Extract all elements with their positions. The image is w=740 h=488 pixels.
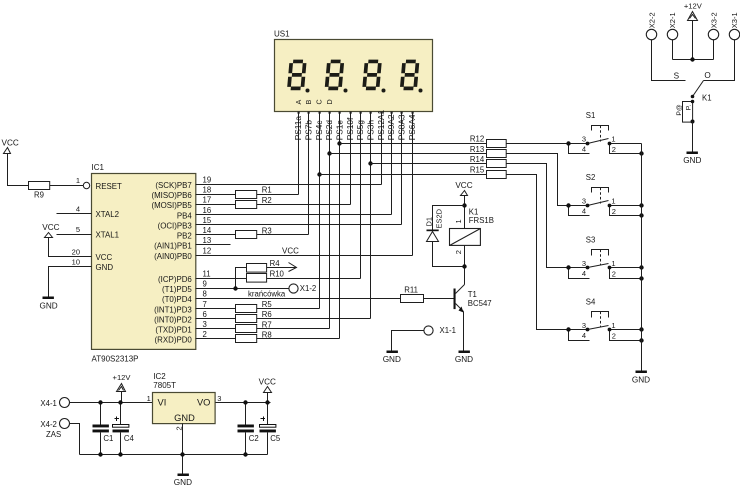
svg-text:GND: GND [632,376,650,385]
junction S3 to ground bus [639,276,643,280]
svg-text:X1-1: X1-1 [440,326,456,335]
display decimal point 2 [344,89,348,93]
svg-text:ES2D: ES2D [435,208,444,228]
display digit 1 [289,61,305,88]
switch S3 [566,236,641,279]
svg-text:GND: GND [174,478,192,487]
resistor R10 [247,274,267,283]
junction pole bottom [691,120,695,124]
connector X2-1 [667,29,677,39]
svg-text:S2: S2 [586,173,596,182]
svg-text:GND: GND [455,355,473,364]
svg-text:4: 4 [76,205,80,214]
svg-text:(ICP)PD6: (ICP)PD6 [158,275,192,284]
svg-text:2: 2 [612,332,616,341]
svg-text:B: B [304,100,313,105]
wire VCC to pin 20 [49,238,92,257]
svg-text:AT90S2313P: AT90S2313P [92,355,139,364]
svg-text:1: 1 [611,135,615,144]
wire keypad row to R12 [340,143,487,145]
svg-text:R3: R3 [262,226,272,235]
svg-text:IC2: IC2 [153,372,166,381]
svg-text:R2: R2 [262,196,272,205]
resistor R11 [401,295,424,303]
net PS11a column wire [298,112,300,195]
capacitor C4 (polarized) [113,403,135,455]
capacitor C1 [93,403,114,455]
net PS10f column wire [350,112,352,205]
svg-text:VCC: VCC [259,377,276,386]
wire pin 18 to R1 [196,194,236,196]
relay K1 FRS1B coil [450,208,494,255]
display digit 2 [327,61,343,88]
svg-text:5: 5 [76,225,80,234]
resistor R13 [487,150,507,158]
svg-text:K1: K1 [469,208,479,217]
svg-text:3: 3 [582,197,586,206]
resistor R4 (pull-up) [247,264,267,273]
wire pin 8 to R11 [196,298,401,300]
svg-text:20: 20 [72,247,80,256]
svg-text:17: 17 [203,196,212,205]
svg-text:1: 1 [611,197,615,206]
IC1 right pin numbers [203,175,212,339]
svg-text:krańcówka: krańcówka [248,290,286,299]
svg-text:+12V: +12V [113,373,132,382]
svg-text:(SCK)PB7: (SCK)PB7 [155,181,191,190]
svg-text:3: 3 [203,320,207,329]
junction +12V feed [690,57,694,61]
junction C4 top [118,400,122,404]
net PS8A3 column wire [401,112,403,225]
svg-text:2: 2 [612,270,616,279]
wire R12 to S1 [507,143,588,145]
svg-text:1: 1 [611,259,615,268]
wire +12V to X2-1 and X3-2 [673,21,714,60]
net PS9A2 column wire [391,112,393,215]
junction VCC / D1 / relay [462,203,466,207]
wire VCC to relay pin 1 [464,196,466,229]
svg-text:4: 4 [582,269,586,278]
svg-text:VCC: VCC [2,139,19,148]
display decimal point 3 [382,89,386,93]
wire IC2 VO rail [216,402,271,404]
power flag VCC (IC1 pin 20) [45,233,53,238]
svg-text:PS5g: PS5g [355,120,365,141]
svg-text:FRS1B: FRS1B [469,216,494,225]
wire pin 2 to R8 [196,338,236,340]
resistor R8 [236,335,257,343]
svg-text:3: 3 [582,321,586,330]
svg-text:XTAL2: XTAL2 [96,210,120,219]
net PS6A4 column wire [412,112,414,256]
connector X1-2 [289,284,298,293]
svg-text:P.: P. [686,105,693,111]
net PS4c column wire [319,112,321,309]
svg-text:X3-1: X3-1 [730,12,739,28]
svg-text:15: 15 [203,216,212,225]
wire R11 to T1 base [424,298,454,300]
svg-text:BC547: BC547 [468,299,492,308]
svg-text:T1: T1 [468,290,477,299]
net PS7b column wire [308,112,310,235]
svg-text:R10: R10 [270,270,285,279]
svg-text:ZAS: ZAS [46,430,61,439]
ground (X1-1) [387,351,398,354]
svg-text:(INT1)PD3: (INT1)PD3 [154,305,192,314]
wire IC2 GND pin to ground [182,424,184,474]
wire pin 10 to ground [49,267,92,297]
svg-text:X2-1: X2-1 [668,12,677,28]
svg-text:K1: K1 [702,93,712,102]
svg-text:X1-2: X1-2 [300,284,316,293]
svg-text:3: 3 [582,259,586,268]
wire R1 to PS11a [257,194,299,196]
wire X4-1 to IC2 VI [70,402,153,404]
diode D1 ES2D [425,208,444,241]
net PS12A1 column wire [381,112,383,185]
resistor R3 [236,231,257,239]
svg-text:C: C [315,99,324,104]
wire pin 16 to PS9A2 [196,214,392,216]
svg-text:R6: R6 [262,310,272,319]
junction S1 to ground bus [639,151,643,155]
switch S2 [566,173,641,216]
svg-text:(AIN1)PB1: (AIN1)PB1 [154,242,192,251]
svg-text:14: 14 [203,226,212,235]
junction C4 bottom [118,452,122,456]
wire relay pin 2 to T1 collector [464,246,466,285]
wire R7 to PS2d [257,328,330,330]
svg-text:R13: R13 [470,145,484,154]
svg-text:R1: R1 [262,186,272,195]
svg-text:R11: R11 [404,285,418,294]
resistor R12 [487,140,507,148]
IC1 left pin numbers and stubs [57,205,92,267]
resistor R9 [29,182,50,190]
junction PS4c / keypad row 4 [317,172,321,176]
svg-text:1: 1 [76,176,80,185]
svg-text:PS10f: PS10f [345,117,355,140]
svg-text:16: 16 [203,206,212,215]
svg-text:4: 4 [582,331,586,340]
wire relay top to D1 cathode [433,206,465,230]
svg-text:IC1: IC1 [92,163,105,172]
resistor R6 [236,315,257,323]
svg-text:11: 11 [203,269,211,278]
junction IC2 GND / bus [180,452,184,456]
svg-text:(RXD)PD0: (RXD)PD0 [155,336,193,345]
svg-text:VI: VI [158,398,167,408]
wire VCC to R9 [8,154,29,186]
svg-text:VCC: VCC [96,253,113,262]
svg-text:O: O [704,71,710,80]
wire R2 to PS10f [257,204,351,206]
wire R9 to IC1 RESET [50,185,84,187]
wire R14 to switch [507,164,588,268]
svg-text:1: 1 [611,321,615,330]
wire X2-2 to S contact [652,40,686,81]
svg-text:(AIN0)PB0: (AIN0)PB0 [154,252,192,261]
junction pole top [691,100,695,104]
svg-text:C4: C4 [124,434,135,443]
svg-text:GND: GND [96,263,114,272]
svg-text:GND: GND [683,156,701,165]
svg-text:S3: S3 [586,236,596,245]
wire pin 3 to R7 [196,328,236,330]
capacitor C2 [238,403,259,455]
svg-text:9: 9 [203,280,207,289]
junction C5 top [265,400,269,404]
connector X3-2 [708,29,718,39]
wire pin 14 to R3 [196,234,236,236]
svg-text:3: 3 [217,394,221,403]
svg-text:P@: P@ [676,104,683,116]
power flag VCC (reset pull-up) [4,148,11,154]
arrow to VCC [289,263,297,272]
net PS5g column wire [360,112,362,279]
svg-text:R9: R9 [34,191,44,200]
junction C1 bottom [98,452,102,456]
svg-text:7: 7 [203,300,207,309]
wire R5 to PS4c [257,308,320,310]
svg-text:R14: R14 [470,155,485,164]
wire keypad row to R15 [320,174,487,176]
wire X1-1 to ground [392,331,424,351]
connector X1-1 [424,326,433,335]
connector X4-2 [60,419,70,429]
net PS2d column wire [329,112,331,329]
svg-text:(MOSI)PB5: (MOSI)PB5 [151,201,192,210]
svg-text:R7: R7 [262,320,272,329]
wire +12V to rail [121,392,123,403]
switch S1 [566,111,641,154]
svg-text:PS6A4: PS6A4 [407,114,417,140]
svg-text:(T0)PD4: (T0)PD4 [162,295,192,304]
svg-text:7805T: 7805T [153,381,176,390]
svg-text:PS4c: PS4c [314,120,324,140]
wire T1 emitter to ground [463,312,465,351]
display US1 4-digit 7-segment [274,30,433,112]
svg-text:S4: S4 [586,298,596,307]
svg-text:GND: GND [39,302,57,311]
svg-text:12: 12 [203,246,212,255]
svg-text:X4-2: X4-2 [40,420,56,429]
svg-text:1: 1 [147,394,151,403]
wire R3 to PS7b [257,234,309,236]
svg-text:VCC: VCC [42,223,59,232]
wire R6 to PS3h [257,318,371,320]
resistor R7 [236,325,257,333]
wire R4 to VCC arrow [267,267,296,269]
svg-text:3: 3 [582,135,586,144]
svg-text:4: 4 [582,145,586,154]
svg-text:C5: C5 [270,434,281,443]
supply ground bus [80,454,268,456]
IC U IC1 AT90S2313P [92,163,196,364]
wire R4 left to pin 9 junction [236,268,247,289]
connector X4-1 [60,398,70,408]
wire pin 9 to X1-2 [196,288,289,290]
power flag +12V (supply) [117,384,126,392]
wire pin 6 to R6 [196,318,236,320]
svg-text:D1: D1 [425,217,434,227]
connector X3-1 [729,29,739,39]
svg-text:10: 10 [72,257,80,266]
power flag VCC (relay) [461,191,468,196]
junction contact arm pivot [691,95,695,99]
svg-text:2: 2 [612,207,616,216]
svg-text:XTAL1: XTAL1 [96,231,120,240]
svg-text:PS8A3: PS8A3 [397,114,407,140]
junction pin 9 / R4 [233,286,237,290]
svg-text:PS2d: PS2d [324,120,334,141]
resistor R5 [236,305,257,313]
svg-text:4: 4 [582,207,586,216]
wire pole to ground [692,122,694,152]
svg-text:US1: US1 [274,30,290,39]
svg-text:(TXD)PD1: (TXD)PD1 [155,326,191,335]
svg-text:PS12A1: PS12A1 [376,109,386,140]
RESET inverter bubble [83,182,89,188]
capacitor C5 (polarized) [260,403,281,455]
resistor R1 [236,191,257,199]
svg-text:2: 2 [612,145,616,154]
svg-text:8: 8 [203,290,207,299]
svg-text:(T1)PD5: (T1)PD5 [162,285,192,294]
svg-text:1: 1 [454,219,463,223]
ground (supply) [178,474,189,477]
svg-text:RESET: RESET [96,182,122,191]
wire R8 to PS1e [257,338,340,340]
junction C2 top [243,400,247,404]
wire pin 13 stub [196,244,231,246]
wire keypad row to R14 [371,163,487,165]
svg-text:A: A [294,100,303,105]
svg-text:2: 2 [203,330,207,339]
svg-text:S: S [674,71,680,80]
display decimal point 1 [306,89,310,93]
wire pin 11 to R10 [196,278,247,280]
resistor R2 [236,201,257,209]
junction C1 top [98,400,102,404]
svg-text:R5: R5 [262,300,273,309]
display segment letters A B C D [294,99,334,104]
svg-text:GND: GND [174,413,195,423]
regulator IC2 7805T [147,372,222,431]
svg-text:D: D [325,99,334,104]
svg-text:(INT0)PD2: (INT0)PD2 [154,315,192,324]
wire pin 7 to R5 [196,308,236,310]
svg-text:X4-1: X4-1 [40,399,56,408]
connector X2-2 [646,29,656,39]
wire pin 19 to PS12A1 [196,184,382,186]
display digit 3 [364,61,380,88]
svg-text:13: 13 [203,236,212,245]
wire R13 to switch [507,154,588,206]
junction PS1e / keypad row 1 [337,141,341,145]
wire pin 12 to PS6A4 [196,255,413,257]
ground (relay pole) [687,152,698,155]
wire pin 15 to PS8A3 [196,224,402,226]
net PS1e column wire [339,112,341,339]
svg-text:VO: VO [197,398,210,408]
svg-text:PS3h: PS3h [365,120,375,141]
ground (IC1 pin 10) [43,297,54,300]
svg-text:+12V: +12V [684,1,703,10]
junction PS2d / keypad row 2 [327,151,331,155]
svg-text:S1: S1 [586,111,596,120]
svg-text:18: 18 [203,186,212,195]
resistor R14 [487,160,507,168]
svg-text:C1: C1 [103,434,113,443]
svg-text:C2: C2 [249,434,259,443]
svg-text:(MISO)PB6: (MISO)PB6 [151,191,192,200]
junction S2 to ground bus [639,213,643,217]
svg-text:PS1e: PS1e [334,120,344,141]
svg-text:PB4: PB4 [177,211,193,220]
svg-text:VCC: VCC [282,246,299,255]
svg-text:R15: R15 [470,165,485,174]
wire R15 to switch [507,175,588,330]
svg-text:VCC: VCC [455,181,472,190]
power flag VCC (5V rail) [264,387,272,393]
switch S4 [566,298,641,341]
wire pin 17 to R2 [196,204,236,206]
svg-text:X2-2: X2-2 [647,12,656,28]
display digit 4 [402,61,418,88]
wire X3-1 to O contact [704,40,735,81]
svg-text:R4: R4 [270,259,281,268]
svg-text:GND: GND [383,355,401,364]
wire VCC to rail [267,393,269,403]
wire X4-2 to ground bus [70,424,80,455]
svg-text:PS7b: PS7b [303,120,313,141]
svg-text:PB2: PB2 [177,232,192,241]
ground (T1 emitter) [459,351,470,354]
net PS3h column wire [370,112,372,319]
transistor T1 BC547 [454,285,492,313]
junction C2 bottom [243,452,247,456]
svg-text:X3-2: X3-2 [709,12,718,28]
wire D1 anode to relay pin 2 junction [433,242,465,267]
svg-text:PS9A2: PS9A2 [386,114,396,140]
junction PS3h / keypad row 3 [368,161,372,165]
svg-text:(OCI)PB3: (OCI)PB3 [158,221,193,230]
svg-text:R12: R12 [470,134,484,143]
display decimal point 4 [419,89,423,93]
power flag +12V (contacts) [688,12,698,21]
keypad ground bus [641,144,643,371]
junction relay / D1 / T1 [462,264,466,268]
relay contact arm K1 [693,81,704,97]
resistor R15 [487,171,507,179]
wire R10 to PS5g [267,278,361,280]
relay pole box P [676,102,692,123]
svg-text:2: 2 [454,250,463,254]
junction S4 to ground bus [639,338,643,342]
wire keypad row to R13 [330,153,487,155]
svg-text:PS11a: PS11a [293,116,303,141]
svg-text:19: 19 [203,175,212,184]
ground (keypad bus) [636,371,647,374]
svg-text:6: 6 [203,310,207,319]
